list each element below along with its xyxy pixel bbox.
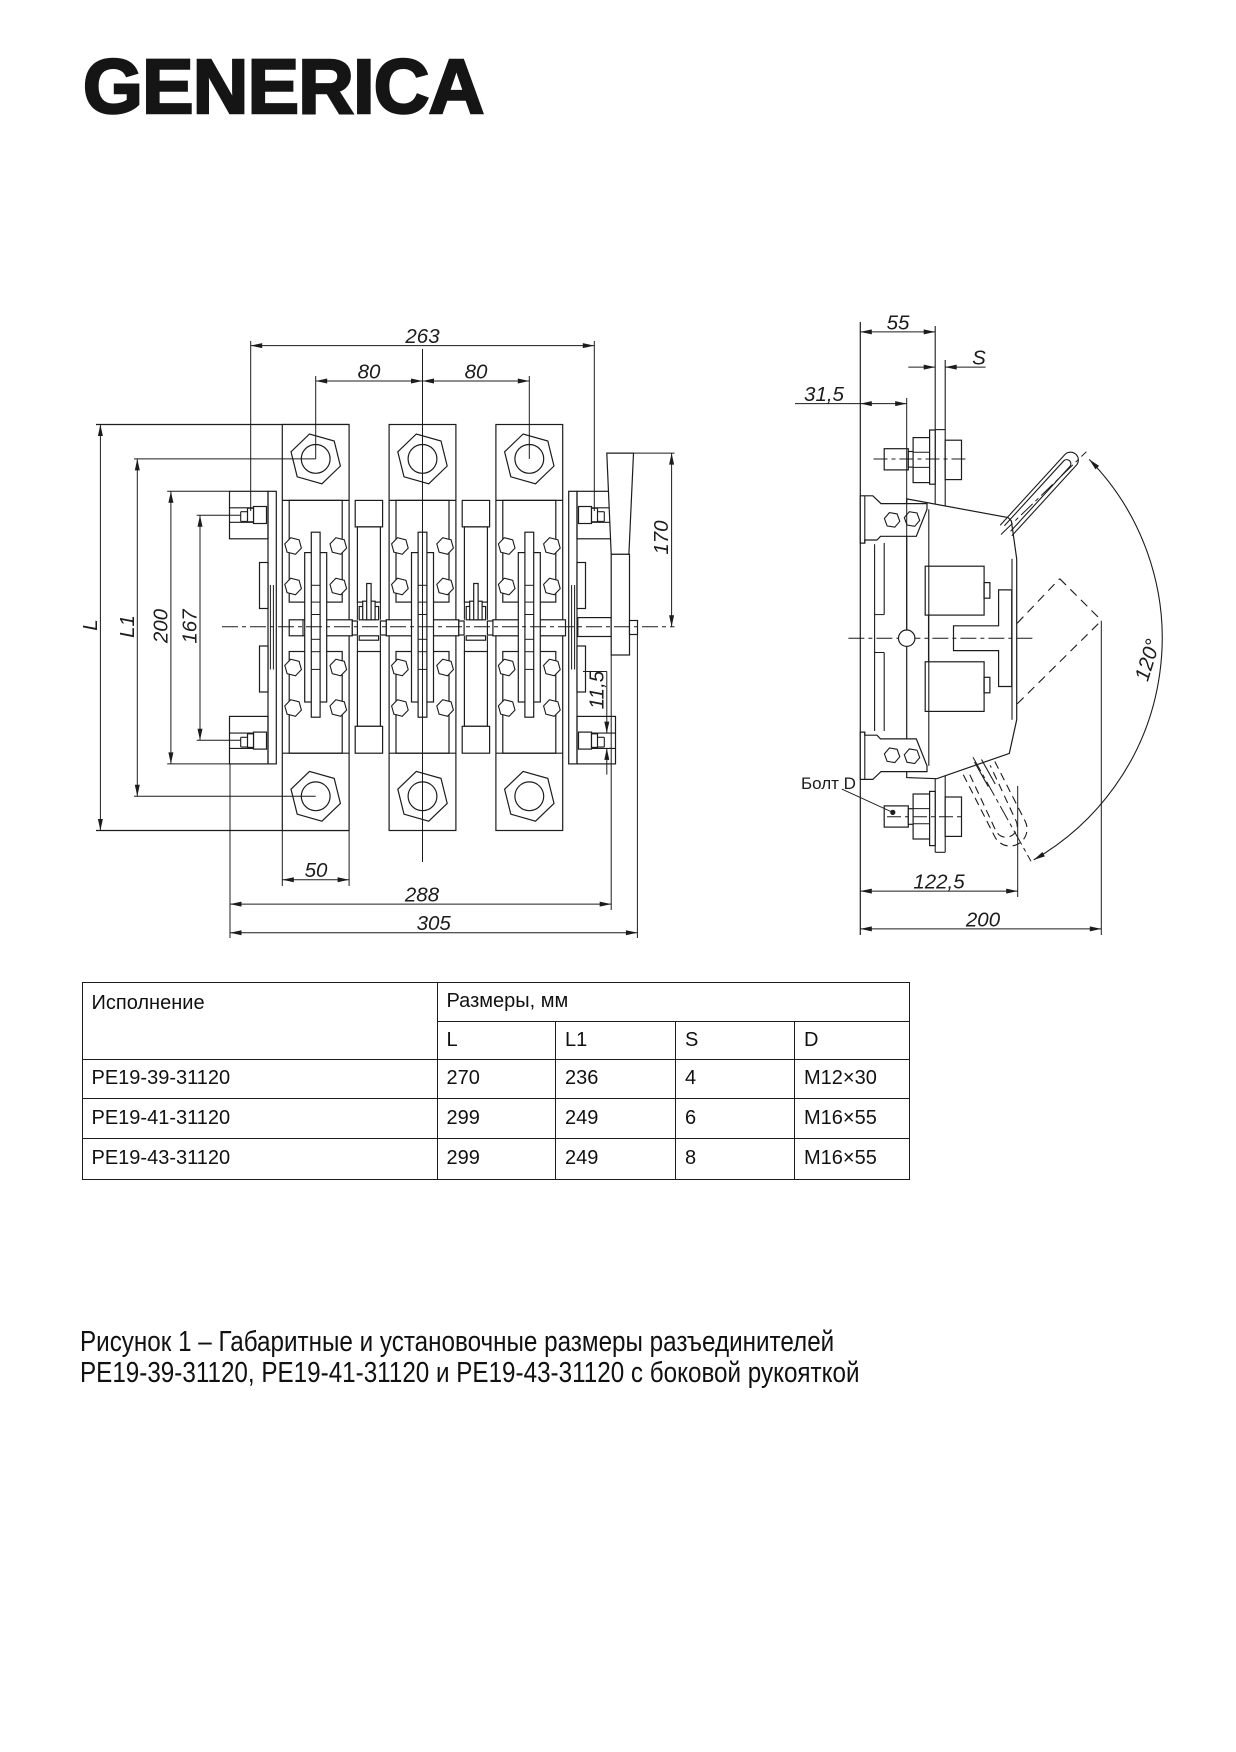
side view bottom mounting bolt bbox=[884, 791, 964, 845]
handle grip front view bbox=[607, 453, 634, 554]
pole 1 top hex nut bbox=[291, 434, 340, 484]
handle arm bar front view bbox=[611, 554, 629, 655]
svg-text:50: 50 bbox=[305, 859, 328, 882]
left bracket top arm with bolt bbox=[230, 491, 269, 539]
pole 1 terminal blocks bbox=[282, 500, 349, 753]
dimension 122,5 horizontal bbox=[860, 786, 1017, 897]
pole 2 contact bar bbox=[389, 425, 456, 831]
handle up position grip bbox=[1000, 452, 1086, 536]
right bracket plate bbox=[569, 491, 586, 764]
pole 3 center extension line bbox=[528, 376, 530, 459]
pole 2 blade assembly bbox=[412, 532, 434, 717]
dimension L1 vertical bbox=[116, 459, 316, 796]
pole 3 contact bar bbox=[496, 425, 563, 831]
svg-text:263: 263 bbox=[404, 325, 440, 348]
handle down position dashed bbox=[963, 757, 1031, 861]
dashed open-position envelope bbox=[1017, 579, 1101, 704]
side view top clamp bbox=[860, 496, 927, 543]
pole 2 terminal blocks bbox=[389, 500, 456, 753]
side view contact bar T shape bbox=[954, 590, 1012, 687]
pole 3 small hex bolts bbox=[498, 538, 560, 717]
side view center line bbox=[848, 637, 1035, 639]
svg-text:80: 80 bbox=[465, 360, 488, 383]
insulator tower 1 between poles bbox=[355, 500, 382, 753]
right bracket bottom arm with bolt bbox=[577, 716, 616, 764]
pole 1 contact bar bbox=[282, 425, 349, 831]
crank fork on shaft gap 2 bbox=[466, 584, 485, 641]
label Bolt D with leader bbox=[801, 774, 895, 815]
pole 1 center extension line bbox=[315, 376, 317, 459]
front view: pole bar top edge with L extension line bbox=[96, 424, 349, 426]
side view top mounting bolt bbox=[874, 430, 970, 484]
side view bottom clamp bbox=[860, 732, 927, 779]
dimension L vertical bbox=[79, 425, 103, 831]
pole 3 terminal blocks bbox=[496, 500, 563, 753]
dimension 263 horizontal bbox=[251, 325, 595, 511]
arc 120 degrees bbox=[1034, 459, 1165, 860]
crank fork on shaft gap 1 bbox=[359, 584, 378, 641]
pole 2 center line bbox=[422, 349, 424, 862]
svg-text:11,5: 11,5 bbox=[585, 670, 608, 709]
figure caption bbox=[80, 1327, 860, 1388]
right bracket top arm with bolt bbox=[577, 491, 616, 539]
side view switch body outline bbox=[907, 499, 1017, 779]
handle down arm solid lines bbox=[975, 760, 996, 787]
pole 2 top hex nut bbox=[398, 434, 447, 484]
left bracket bottom arm with bolt bbox=[230, 716, 269, 764]
svg-text:L1: L1 bbox=[116, 615, 139, 638]
dimension 11,5 vertical bbox=[583, 670, 609, 774]
dimension 50 horizontal bbox=[282, 831, 349, 887]
dimension 305 horizontal bbox=[230, 635, 637, 939]
shaft square section pole 3 bbox=[493, 620, 566, 636]
svg-text:80: 80 bbox=[358, 360, 381, 383]
svg-text:31,5: 31,5 bbox=[804, 383, 844, 406]
shaft square section pole 2 bbox=[386, 620, 459, 636]
side view rail plate between clamps bbox=[875, 543, 885, 731]
dimension 31,5 horizontal bbox=[795, 383, 907, 406]
side view mounting panel thickness S bbox=[935, 326, 945, 852]
svg-text:200: 200 bbox=[965, 908, 1001, 931]
side view block connector line bbox=[928, 615, 930, 662]
pole 2 bottom hex nut bbox=[398, 771, 447, 821]
svg-text:305: 305 bbox=[417, 912, 452, 935]
side view mounting plate left face bbox=[859, 322, 861, 935]
dimension 55 horizontal bbox=[860, 311, 935, 334]
GENERICA logo bbox=[83, 43, 483, 132]
right bracket shaft hub bbox=[578, 618, 611, 637]
svg-text:170: 170 bbox=[650, 520, 673, 555]
dimension S bbox=[908, 347, 986, 370]
shaft connector gap 2 bbox=[459, 621, 493, 635]
pole 1 blade assembly bbox=[305, 532, 327, 717]
svg-text:55: 55 bbox=[887, 311, 910, 334]
svg-text:122,5: 122,5 bbox=[913, 871, 965, 894]
side view lower terminal block bbox=[925, 662, 990, 712]
svg-text:200: 200 bbox=[149, 608, 172, 644]
shaft connector gap 1 bbox=[352, 621, 386, 635]
dimension 200 vertical bbox=[149, 491, 229, 764]
dimension 288 horizontal bbox=[230, 655, 611, 938]
pole 2 small hex bolts bbox=[392, 538, 454, 717]
front view: pole bar bottom edge with L extension line bbox=[96, 830, 349, 832]
side view upper terminal block bbox=[925, 566, 990, 615]
side view bolt axis vertical line bbox=[906, 398, 908, 630]
pole 3 blade assembly bbox=[518, 532, 540, 717]
pole 3 bottom hex nut bbox=[505, 771, 554, 821]
dimension 80 right bbox=[423, 360, 530, 383]
pole 1 bottom hex nut bbox=[291, 771, 340, 821]
svg-text:Болт D: Болт D bbox=[801, 774, 856, 793]
pole 3 top hex nut bbox=[505, 434, 554, 484]
side view shaft circle bbox=[899, 630, 915, 646]
side view body face step line bbox=[928, 509, 930, 765]
specification table bbox=[82, 982, 910, 1180]
front view shaft center line bbox=[222, 626, 675, 628]
dimension 167 vertical bbox=[179, 515, 241, 740]
svg-text:288: 288 bbox=[404, 884, 440, 907]
shaft end cap right of handle bbox=[630, 621, 638, 635]
shaft square section pole 1 bbox=[289, 620, 352, 636]
dimension 80 left bbox=[316, 360, 423, 383]
left bracket plate bbox=[260, 491, 277, 764]
pole 1 small hex bolts bbox=[285, 538, 347, 717]
dimension 200 horizontal side view bbox=[860, 621, 1101, 935]
svg-text:L: L bbox=[79, 619, 102, 630]
svg-text:167: 167 bbox=[179, 608, 202, 644]
dimension 170 vertical at handle bbox=[634, 453, 675, 627]
svg-text:S: S bbox=[972, 347, 986, 370]
insulator tower 2 between poles bbox=[462, 500, 489, 753]
